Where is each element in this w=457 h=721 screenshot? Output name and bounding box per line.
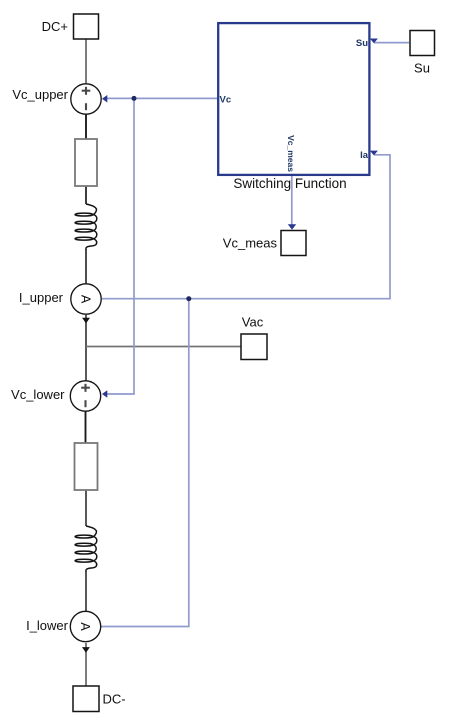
wire: inductor L_lower to I_lower xyxy=(85,571,87,612)
wire: resistor R_lower to inductor L_lower xyxy=(85,489,87,526)
wire: DC+ lead to Vc_upper xyxy=(85,39,87,84)
wire: I_upper output to Ia port loop xyxy=(102,155,390,299)
wire: Vc_meas output down to Vc_meas port xyxy=(291,175,293,225)
resistor R_upper xyxy=(75,139,97,186)
inductor L_lower xyxy=(75,526,97,572)
arrow into Su port xyxy=(370,39,378,44)
svg-text:Su: Su xyxy=(356,38,368,49)
svg-text:I_upper: I_upper xyxy=(19,290,64,305)
arrow below I_lower xyxy=(82,647,90,653)
voltage source Vc_lower xyxy=(70,381,100,411)
resistor R_lower xyxy=(75,443,98,490)
port Vc_meas xyxy=(281,231,306,256)
wire: I_upper down through tee to Vc_lower xyxy=(85,315,87,381)
arrow into Ia port xyxy=(370,151,378,156)
svg-text:Vc_meas: Vc_meas xyxy=(223,236,278,251)
wire: Vc signal from Switching Function to Vc_upper xyxy=(104,97,218,99)
svg-text:Vc_lower: Vc_lower xyxy=(11,387,65,402)
wire: I_lower output up to junction xyxy=(101,299,189,627)
wire: inductor L_upper to I_upper xyxy=(85,249,87,284)
subsystem U1 Switching Function xyxy=(218,23,369,175)
svg-text:Vac: Vac xyxy=(242,315,264,330)
wire: Vc branch down to Vc_lower xyxy=(104,98,134,394)
wire: resistor R_upper to inductor L_upper xyxy=(85,185,87,204)
port DC- xyxy=(73,686,99,712)
arrow into Vc_meas port box xyxy=(288,224,296,230)
svg-text:A: A xyxy=(79,295,93,304)
wire: Vc_lower to resistor R_lower xyxy=(85,411,87,443)
ammeter I_lower xyxy=(70,611,100,641)
wire: Su source to Su port xyxy=(374,42,409,44)
wire: Vc_upper to resistor R_upper xyxy=(85,114,87,139)
port Vac xyxy=(241,334,267,360)
voltage source Vc_upper xyxy=(71,84,101,114)
node: Vc branch junction xyxy=(132,96,137,101)
wire: I_lower to DC- lead xyxy=(85,643,87,686)
arrow into Vc_upper xyxy=(102,95,107,103)
svg-text:DC+: DC+ xyxy=(42,19,68,34)
svg-text:I_lower: I_lower xyxy=(26,618,69,633)
svg-text:Su: Su xyxy=(414,61,430,76)
arrow into Vc_lower xyxy=(102,390,107,398)
svg-text:Ia: Ia xyxy=(360,150,369,161)
inductor L_upper xyxy=(75,204,97,250)
ammeter I_upper xyxy=(71,284,101,314)
svg-text:Switching Function: Switching Function xyxy=(233,176,346,191)
svg-text:Vc: Vc xyxy=(220,94,232,105)
node: Ia junction xyxy=(186,296,191,301)
wire: tee to Vac port xyxy=(86,346,241,348)
arrow below I_upper xyxy=(82,318,90,324)
port DC+ xyxy=(74,14,99,39)
svg-text:DC-: DC- xyxy=(103,692,126,707)
svg-text:Vc_meas: Vc_meas xyxy=(286,135,296,172)
port Su xyxy=(410,31,435,56)
svg-text:Vc_upper: Vc_upper xyxy=(12,87,68,102)
svg-text:A: A xyxy=(78,622,92,631)
